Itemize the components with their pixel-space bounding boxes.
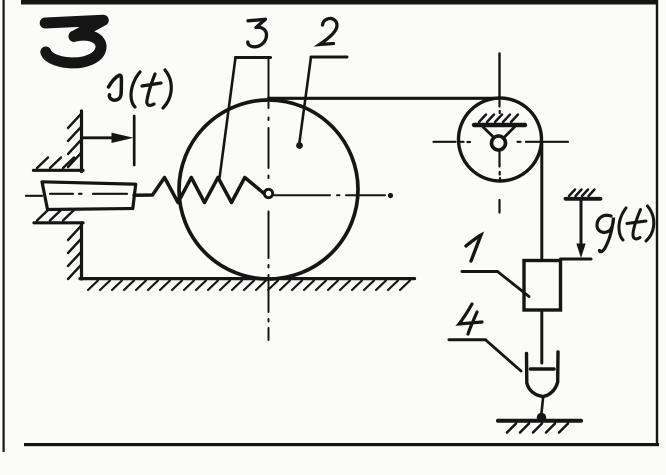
s(t) displacement arrow xyxy=(84,133,134,143)
label 4 text xyxy=(459,304,482,334)
piston slider in wall slot xyxy=(42,182,136,210)
damper piston plate xyxy=(531,367,555,371)
label 1 leader xyxy=(462,272,529,297)
damper ground line xyxy=(498,419,581,423)
pulley axle pin xyxy=(492,136,506,150)
q(t) arrow xyxy=(576,201,585,259)
damper rod xyxy=(540,310,543,363)
problem number 3 (bold) xyxy=(45,20,103,63)
wall lower hatching xyxy=(68,226,81,279)
pulley vertical centreline below xyxy=(498,101,501,213)
damper ground hatching xyxy=(507,424,568,433)
label 2 leader xyxy=(296,57,347,149)
wall upper hatching xyxy=(68,114,81,167)
damper tip stem xyxy=(542,397,544,414)
label 2 text xyxy=(320,18,338,44)
pulley horizontal centreline xyxy=(434,141,569,143)
label 4 leader xyxy=(449,340,521,371)
ground line under disk xyxy=(80,277,415,280)
wall upper ledge xyxy=(34,169,84,172)
ground hatching under disk xyxy=(88,281,410,291)
label 1 text xyxy=(466,235,481,261)
spring 3 xyxy=(134,178,264,203)
wall lower vertical xyxy=(80,223,83,279)
pulley support bar xyxy=(474,123,525,127)
q(t) support bar xyxy=(566,197,601,201)
rope from pulley down to block 1 xyxy=(540,142,543,258)
label 3 leader xyxy=(220,58,271,179)
wall upper ledge hatching xyxy=(37,158,74,169)
wall upper vertical xyxy=(80,111,83,172)
pulley support triangle xyxy=(483,127,515,140)
q(t) support hatching xyxy=(569,190,595,197)
pulley circle xyxy=(459,98,542,181)
q(t) label xyxy=(597,206,654,252)
pulley support hatching xyxy=(479,115,518,123)
block 1 xyxy=(524,261,561,311)
wall lower ledge hatching xyxy=(37,210,74,221)
disk 2 (big circle) xyxy=(179,100,358,279)
piston centreline (dash-dot) xyxy=(26,194,127,196)
damper pivot dot xyxy=(537,413,547,423)
disk horizontal centreline xyxy=(275,193,394,198)
hub at disk centre xyxy=(264,189,272,197)
disk vertical centreline xyxy=(268,59,270,341)
label 3 text xyxy=(248,19,267,47)
s(t) reference mark line xyxy=(133,116,136,165)
s(t) label xyxy=(109,70,172,108)
line above pulley xyxy=(498,54,500,98)
rope from disk top to pulley xyxy=(269,97,499,100)
block top line extension xyxy=(561,258,592,261)
damper cup 4 xyxy=(527,352,559,397)
wall lower ledge xyxy=(34,221,83,224)
